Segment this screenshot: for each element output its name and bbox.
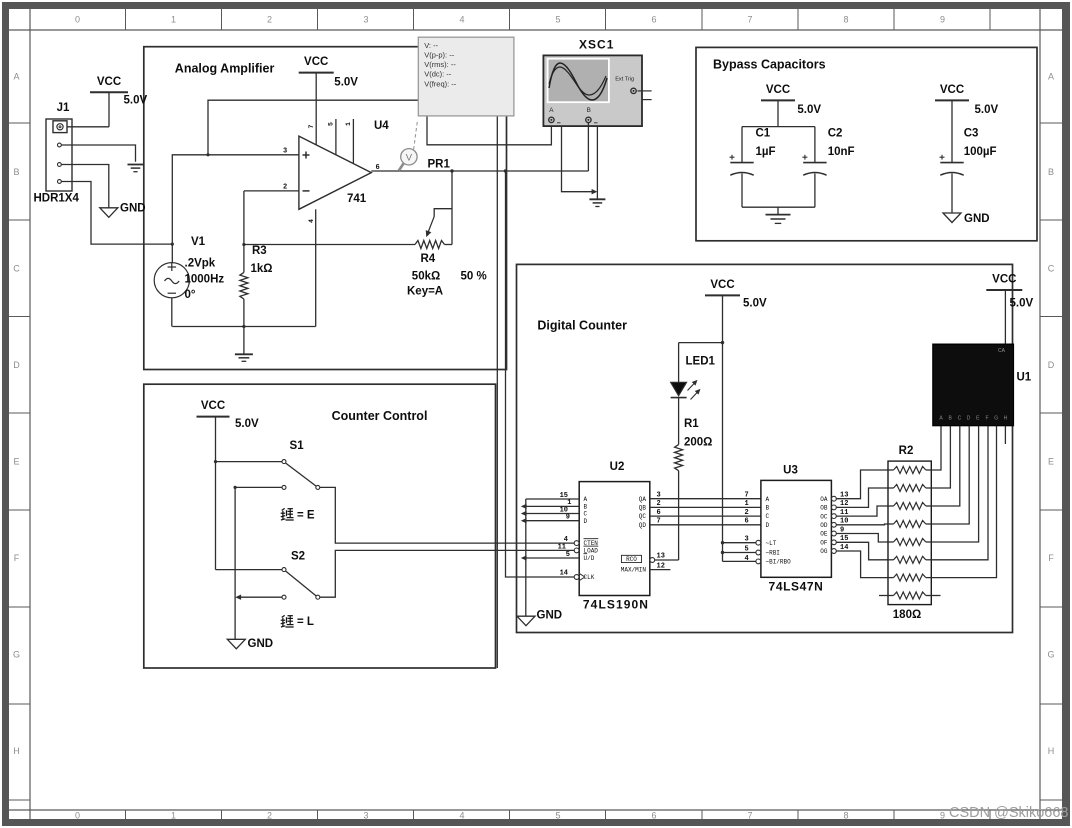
wire U2 pin5 U/D (526, 557, 579, 559)
svg-text:0: 0 (75, 811, 80, 821)
ground GND (bypass) (943, 213, 961, 223)
svg-text:PR1: PR1 (428, 159, 451, 171)
pin bubble U3 OD pin10 (832, 522, 837, 527)
counter U2 74LS190N (579, 482, 650, 596)
wire J1 pin4 to V1 node (61, 182, 172, 245)
svg-text:QA: QA (639, 496, 647, 503)
display U1 (933, 344, 1014, 426)
stub U1 pin H (1004, 426, 1006, 444)
wire scope A- to ground (562, 126, 595, 192)
wire U3 OC to R2 row3 (836, 506, 888, 516)
svg-text:F: F (1048, 553, 1054, 563)
wire U3 OG to R2 row7 (836, 551, 888, 578)
probe PR1 (399, 164, 404, 171)
svg-text:.2Vpk: .2Vpk (185, 258, 216, 270)
svg-text:6: 6 (657, 509, 661, 517)
wire U3 OE to R2 row5 (836, 534, 888, 543)
pin bubble U3 OE pin9 (832, 531, 837, 536)
svg-text:A: A (766, 496, 770, 503)
wire R3 bottom lead (243, 299, 245, 327)
svg-text:VCC: VCC (97, 76, 121, 88)
svg-text:74LS190N: 74LS190N (583, 598, 649, 612)
decoder U3 74LS47N (761, 480, 832, 577)
ground GND (J1 pin3) (100, 208, 118, 218)
wire R2 row2 to U1 pin B (931, 426, 950, 488)
pin bubble U3 OA pin13 (832, 496, 837, 501)
label RCO (boxed) (622, 555, 642, 562)
svg-text:6: 6 (651, 15, 656, 25)
svg-text:S1: S1 (290, 440, 305, 452)
svg-text:VCC: VCC (304, 56, 328, 68)
source V1 AC (154, 263, 189, 298)
svg-text:2: 2 (657, 500, 661, 508)
wire S2 lower-left contact (238, 596, 283, 598)
resistor R2 element 5 (888, 541, 894, 543)
wire QC bus (650, 515, 761, 517)
svg-text:1: 1 (171, 811, 176, 821)
svg-text:R1: R1 (684, 418, 699, 430)
power VCC (op-amp) (299, 72, 334, 74)
svg-text:5.0V: 5.0V (334, 76, 358, 88)
capacitor C2 (814, 127, 816, 163)
wire bypass top rail (742, 126, 815, 128)
svg-text:9: 9 (940, 811, 945, 821)
svg-text:7: 7 (747, 811, 752, 821)
svg-text:Key=A: Key=A (407, 286, 443, 298)
svg-text:10nF: 10nF (828, 146, 855, 158)
wire QB bus (650, 506, 761, 508)
wire V1 bottom lead (171, 298, 173, 327)
wire op-amp output node (371, 170, 588, 172)
svg-text:VCC: VCC (201, 400, 225, 412)
stub R2 common left (879, 595, 888, 597)
svg-text:R3: R3 (252, 245, 267, 257)
pin bubble U2 RCO pin13 (650, 558, 655, 563)
power VCC (bypass C1 C2) (761, 99, 795, 101)
svg-text:9: 9 (566, 514, 570, 522)
resistor R2 element 3 (888, 505, 894, 507)
svg-text:3: 3 (363, 811, 368, 821)
svg-text:V(rms): --: V(rms): -- (424, 60, 456, 69)
ground GND (counter control) (227, 639, 245, 649)
op-amp pin1 stub (352, 119, 354, 164)
wire analog bottom rail (172, 326, 315, 328)
svg-text:CSDN @Skiko668: CSDN @Skiko668 (949, 805, 1068, 821)
wire VCC to U1 CA (1004, 290, 1006, 344)
svg-text:Counter Control: Counter Control (332, 409, 428, 423)
svg-text:50kΩ: 50kΩ (412, 271, 440, 283)
section box Analog Amplifier (144, 47, 507, 370)
svg-text:LED1: LED1 (686, 356, 716, 368)
svg-text:A: A (584, 496, 588, 503)
wire U3 OB to R2 row2 (836, 488, 888, 507)
resistor R2 element 2 (888, 487, 894, 489)
wire U2 pin9 D (526, 520, 579, 522)
svg-text:5.0V: 5.0V (235, 418, 259, 430)
resistor R2 element 6 (888, 559, 894, 561)
svg-text:74LS47N: 74LS47N (769, 580, 824, 594)
svg-text:C2: C2 (828, 127, 843, 139)
svg-text:3: 3 (745, 536, 749, 544)
wire branch to scope A (upper) (208, 100, 427, 155)
wire ground rail (counter control) (234, 487, 236, 639)
svg-text:E: E (1048, 457, 1054, 467)
svg-text:4: 4 (745, 555, 749, 563)
pin bubble U3 OF pin15 (832, 540, 837, 545)
svg-text:5: 5 (327, 122, 334, 126)
resistor R2 element 8 (888, 595, 894, 597)
svg-text:OD: OD (820, 522, 828, 529)
svg-text:S2: S2 (291, 551, 305, 563)
op-amp U4 741 (299, 136, 371, 209)
svg-text:Digital Counter: Digital Counter (537, 318, 627, 332)
svg-text:C: C (1048, 264, 1055, 274)
svg-text:U3: U3 (783, 464, 798, 476)
svg-text:C3: C3 (964, 127, 979, 139)
svg-text:V: V (406, 153, 413, 164)
ground (analog) (235, 353, 253, 355)
svg-text:6: 6 (651, 811, 656, 821)
svg-text:D: D (967, 415, 971, 421)
svg-text:GND: GND (964, 213, 990, 225)
wire scope B+ to output node (587, 123, 589, 172)
wire VCC to S2 top contact (216, 569, 283, 571)
wire VCC to op-amp pin7 (315, 73, 317, 145)
svg-text:4: 4 (308, 219, 315, 223)
svg-text:U1: U1 (1017, 371, 1032, 383)
svg-text:D: D (766, 522, 770, 529)
svg-text:~RBI: ~RBI (766, 550, 780, 557)
svg-text:C: C (13, 264, 20, 274)
svg-text:Bypass Capacitors: Bypass Capacitors (713, 57, 826, 71)
svg-text:B: B (584, 504, 588, 511)
svg-text:3: 3 (283, 147, 287, 155)
svg-text:Ext Trig: Ext Trig (615, 77, 634, 83)
wire long vertical from probe box (496, 116, 498, 668)
wire VCC stem (bypass) (777, 100, 779, 126)
wire R1 to RCO (678, 471, 680, 560)
power VCC (J1) (90, 91, 128, 93)
svg-text:CA: CA (998, 348, 1006, 354)
power VCC (display) (986, 289, 1022, 291)
wire U3 pin4 BI/RBO (723, 560, 756, 562)
wire J1 pin1 to VCC (67, 126, 109, 128)
pin bubble U2 CTEN (574, 541, 579, 546)
svg-text:D: D (584, 518, 588, 525)
label key=L (281, 615, 294, 627)
wire op-amp - input (244, 190, 299, 192)
wire U2 pin10 C (526, 513, 579, 515)
svg-text:D: D (13, 360, 20, 370)
ground (bypass) (766, 214, 791, 216)
ground (scope) (589, 198, 605, 200)
power VCC (bypass C3) (935, 99, 969, 101)
pin bubble U3 OC pin11 (832, 514, 837, 519)
wire S1 output to CTEN (320, 487, 574, 543)
svg-text:1000Hz: 1000Hz (185, 273, 225, 285)
wire under probe box to scope A (427, 116, 551, 145)
svg-text:G: G (13, 650, 20, 660)
svg-text:B: B (13, 167, 19, 177)
wire scope B- to ground (596, 126, 598, 199)
pin bubble U2 LOAD (574, 548, 579, 553)
svg-text:13: 13 (657, 553, 665, 561)
svg-text:2: 2 (745, 509, 749, 517)
svg-text:QD: QD (639, 522, 647, 529)
resistor pack R2 180ohm (888, 461, 931, 604)
svg-text:G: G (994, 415, 998, 421)
svg-text:HDR1X4: HDR1X4 (34, 193, 80, 205)
svg-text:V(dc): --: V(dc): -- (424, 70, 452, 79)
svg-text:MAX/MIN: MAX/MIN (621, 566, 647, 573)
svg-text:5.0V: 5.0V (975, 104, 999, 116)
stub U2 MAX/MIN pin12 (650, 569, 671, 571)
resistor R2 element 1 (888, 469, 894, 471)
svg-text:OC: OC (820, 513, 828, 520)
stub R2 common right (931, 595, 940, 597)
svg-text:0: 0 (75, 15, 80, 25)
svg-text:11: 11 (558, 544, 566, 552)
svg-text:1: 1 (745, 500, 749, 508)
svg-text:12: 12 (657, 563, 665, 571)
svg-text:F: F (985, 415, 988, 421)
svg-text:~BI/RBO: ~BI/RBO (766, 559, 792, 566)
svg-text:V: --: V: -- (424, 41, 438, 50)
svg-text:R4: R4 (421, 253, 436, 265)
svg-text:8: 8 (843, 811, 848, 821)
svg-text:0°: 0° (185, 289, 196, 301)
svg-text:C: C (766, 513, 770, 520)
wire U3 OD to R2 row4 (836, 523, 888, 526)
svg-text:OG: OG (820, 548, 828, 555)
wire bypass bottom rail (742, 206, 815, 208)
svg-text:V(p-p): --: V(p-p): -- (424, 51, 455, 60)
svg-text:Analog Amplifier: Analog Amplifier (175, 62, 275, 76)
svg-text:R2: R2 (899, 445, 914, 457)
svg-text:5.0V: 5.0V (124, 95, 148, 107)
resistor R2 element 4 (888, 523, 894, 525)
wire VCC stem to switches (215, 417, 217, 570)
wire R2 row5 to U1 pin E (931, 426, 978, 542)
svg-text:B: B (1048, 167, 1054, 177)
svg-text:U/D: U/D (584, 555, 595, 562)
svg-text:VCC: VCC (992, 274, 1016, 286)
svg-text:6: 6 (745, 518, 749, 526)
svg-text:D: D (1048, 360, 1055, 370)
clock marker U2 CLK (579, 573, 585, 580)
svg-text:H: H (13, 746, 20, 756)
connector J1 HDR1X4 (46, 119, 72, 191)
resistor R1 (675, 445, 683, 471)
wire V1 to op-amp + input (172, 155, 299, 244)
svg-text:C: C (584, 511, 588, 518)
wire op-amp pin4 lead (315, 209, 317, 326)
wire J1 pin2 to ground (61, 145, 135, 162)
section box Digital Counter (517, 264, 1013, 632)
section box Bypass Capacitors (696, 47, 1037, 240)
svg-text:~LT: ~LT (766, 540, 777, 547)
wire U2 pin15 A (526, 498, 579, 500)
svg-text:OA: OA (820, 496, 828, 503)
wire branch to LED1 anode (679, 342, 723, 344)
potentiometer R4 (451, 171, 453, 245)
wire VCC stem down to U3 controls (722, 295, 724, 561)
svg-text:5: 5 (745, 545, 749, 553)
svg-text:2: 2 (283, 183, 287, 191)
svg-text:4: 4 (459, 811, 464, 821)
svg-text:U2: U2 (610, 461, 625, 473)
capacitor C1 (741, 127, 743, 163)
capacitor C3 (951, 100, 953, 162)
wire U3 pin3 LT (723, 542, 756, 544)
svg-text:3: 3 (657, 492, 661, 500)
svg-text:V1: V1 (191, 236, 206, 248)
wire R2 row7 to U1 pin G (931, 426, 996, 578)
svg-text:CLK: CLK (584, 574, 595, 581)
wire S2 output to LOAD (320, 550, 574, 597)
svg-text:9: 9 (940, 15, 945, 25)
svg-text:7: 7 (308, 125, 315, 129)
svg-text:2: 2 (267, 811, 272, 821)
svg-text:14: 14 (560, 570, 568, 578)
probe readout box PR1 values (418, 37, 514, 116)
svg-text:H: H (1004, 415, 1008, 421)
svg-text:XSC1: XSC1 (579, 38, 614, 52)
wire J1 pin3 to GND (61, 165, 109, 208)
ground rail for U2 inputs (525, 499, 527, 616)
svg-text:5.0V: 5.0V (1010, 297, 1034, 309)
svg-text:QB: QB (639, 505, 647, 512)
svg-text:5: 5 (555, 811, 560, 821)
wire R2 row4 to U1 pin D (931, 426, 969, 524)
svg-text:8: 8 (843, 15, 848, 25)
svg-text:GND: GND (120, 202, 146, 214)
wire rail to ground stem (243, 327, 245, 355)
svg-text:E: E (13, 457, 19, 467)
svg-text:1kΩ: 1kΩ (251, 263, 273, 275)
svg-text:5: 5 (555, 15, 560, 25)
svg-text:200Ω: 200Ω (684, 437, 712, 449)
svg-text:1µF: 1µF (756, 146, 776, 158)
section box Counter Control (144, 384, 496, 668)
svg-text:H: H (1048, 746, 1055, 756)
svg-text:U4: U4 (374, 120, 389, 132)
svg-text:GND: GND (537, 610, 563, 622)
svg-text:J1: J1 (57, 102, 70, 114)
op-amp pin5 stub (335, 119, 337, 155)
svg-text:3: 3 (363, 15, 368, 25)
svg-text:A: A (1048, 72, 1054, 82)
pin bubble U3 OG pin14 (832, 549, 837, 554)
svg-text:= L: = L (297, 616, 314, 628)
svg-text:50 %: 50 % (461, 271, 487, 283)
wire U3 pin5 RBI (723, 552, 756, 554)
wire R4 to inverting node (244, 244, 415, 246)
wire U3 OA to R2 row1 (836, 470, 888, 499)
wire QD bus (650, 524, 761, 526)
resistor R3 (240, 272, 248, 299)
svg-text:OE: OE (820, 531, 828, 538)
svg-text:OB: OB (820, 505, 828, 512)
pin bubble U2 CLK pin14 (574, 575, 579, 580)
svg-text:C: C (958, 415, 962, 421)
svg-text:VCC: VCC (766, 84, 790, 96)
svg-text:= E: = E (297, 509, 315, 521)
power VCC (counter control) (197, 416, 230, 418)
label key=E (281, 508, 294, 520)
wire output node down to CLK (506, 171, 575, 577)
wire U3 OF to R2 row6 (836, 542, 888, 560)
svg-text:5.0V: 5.0V (743, 298, 767, 310)
ground GND (digital counter) (517, 616, 535, 626)
svg-text:A: A (13, 72, 19, 82)
wire R3 top lead (243, 191, 245, 273)
svg-text:1: 1 (345, 122, 352, 126)
wire R2 row3 to U1 pin C (931, 426, 960, 506)
svg-text:G: G (1047, 650, 1054, 660)
wire LED cathode to R1 (678, 398, 680, 445)
svg-text:7: 7 (657, 518, 661, 526)
svg-text:OF: OF (820, 540, 828, 547)
svg-text:180Ω: 180Ω (893, 609, 921, 621)
wire QA bus (650, 498, 761, 500)
svg-text:4: 4 (459, 15, 464, 25)
svg-text:7: 7 (747, 15, 752, 25)
svg-text:RCO: RCO (626, 556, 637, 563)
LED LED1 (671, 382, 687, 396)
resistor R2 element 7 (888, 577, 894, 579)
svg-text:VCC: VCC (710, 279, 734, 291)
svg-text:V(freq): --: V(freq): -- (424, 79, 457, 88)
svg-text:2: 2 (267, 15, 272, 25)
wire R2 row1 to U1 pin A (931, 426, 941, 470)
wire S1 lower-left contact (235, 486, 282, 488)
svg-text:F: F (14, 553, 20, 563)
ground (J1 pin2) (128, 164, 144, 166)
svg-text:5: 5 (566, 551, 570, 559)
svg-text:741: 741 (347, 193, 367, 205)
svg-text:5.0V: 5.0V (797, 104, 821, 116)
svg-text:100µF: 100µF (964, 146, 997, 158)
svg-text:VCC: VCC (940, 84, 964, 96)
pin bubble U3 OB pin12 (832, 505, 837, 510)
svg-text:7: 7 (745, 492, 749, 500)
svg-text:QC: QC (639, 513, 647, 520)
svg-text:B: B (766, 505, 770, 512)
wire to S1 top contact (216, 461, 283, 463)
svg-text:1: 1 (171, 15, 176, 25)
wire R2 row6 to U1 pin F (931, 426, 988, 560)
wire U2 pin1 B (526, 505, 579, 507)
power VCC (digital counter left) (705, 294, 740, 296)
svg-text:B: B (587, 107, 591, 114)
wire V1 top lead (171, 244, 173, 263)
svg-text:GND: GND (248, 638, 274, 650)
svg-text:C1: C1 (756, 127, 771, 139)
